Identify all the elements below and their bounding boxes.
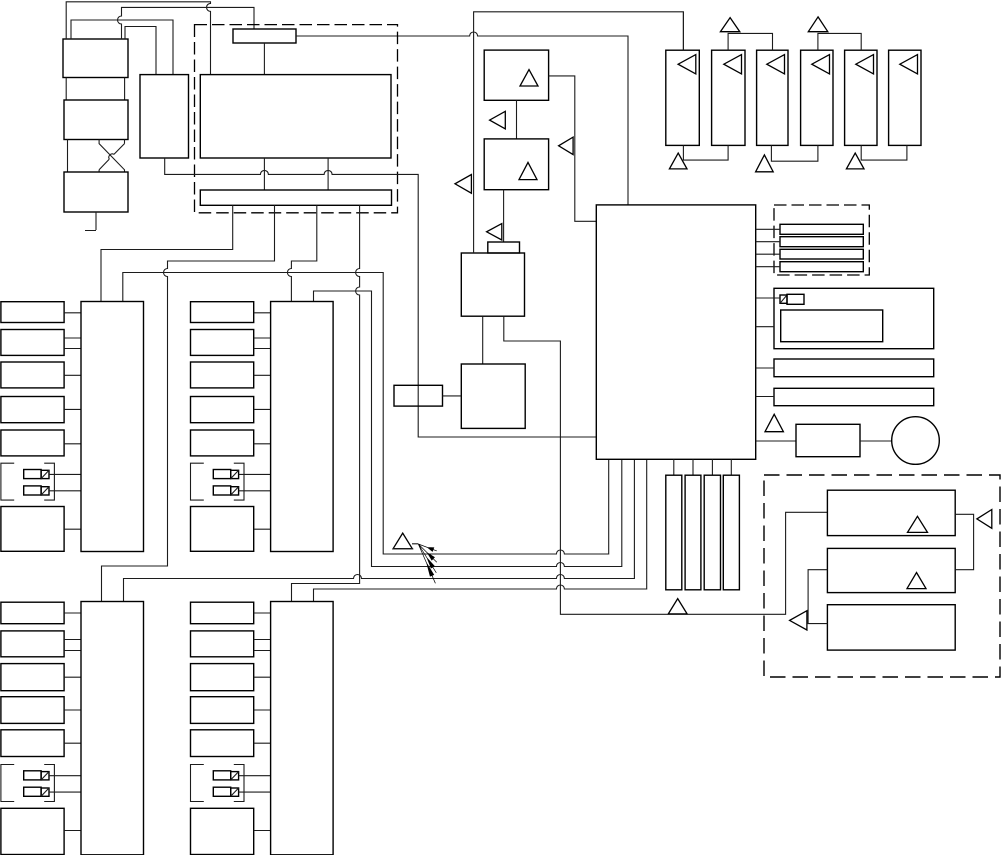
wire battery4-battery5 top link [818, 33, 861, 50]
wire lower-T2 to main unit stub4 [314, 459, 647, 601]
stub below box3 [85, 212, 96, 231]
wire relay box to controller top [296, 32, 628, 205]
wire net-B (box1 to small relay box) [118, 7, 255, 39]
wire bus to lower T1 column [102, 205, 275, 601]
feeder group upper-right (breaker stack and bus column T2) [191, 302, 254, 323]
wire R1 to R2 (right side) [955, 514, 973, 569]
triangle marker left of box E [490, 111, 506, 129]
triangle above battery4 [808, 17, 828, 32]
junction terminal block [488, 242, 520, 253]
wire main to display [756, 326, 774, 328]
bus bar (thin box) [200, 190, 391, 205]
wire box F to junction block [503, 190, 505, 242]
feeder group lower-right (breaker stack and bus column T4) [191, 602, 254, 624]
remote box R2 [827, 548, 955, 592]
triangle marker near motor line [765, 414, 783, 431]
triangle marker left of feeder [455, 175, 471, 194]
small box next to fuse [787, 294, 804, 304]
wire box E to main unit [549, 76, 597, 221]
wire starter to motor [860, 440, 892, 442]
triangle in R2 [907, 573, 926, 589]
wire battery1-battery2 bottom link [683, 145, 728, 160]
wide bar output 1 [774, 359, 934, 377]
main control unit [596, 205, 755, 459]
wire main to bar1 [756, 367, 774, 369]
triangle right of R1 [977, 510, 992, 529]
converter box F [484, 139, 548, 190]
triangle above battery2 [720, 18, 739, 32]
dashed enclosure (outputs) [774, 205, 869, 275]
output bar stubs [756, 228, 780, 230]
wire battery3-battery4 bottom link [771, 145, 818, 161]
wire sensor to box H [443, 395, 462, 397]
triangle in R1 [908, 516, 928, 532]
wire battery5-battery6 bottom link [861, 145, 907, 160]
triangle left of R3 [790, 611, 807, 630]
sensor box left of H [394, 385, 443, 406]
indicator panel box [774, 288, 934, 348]
dashed enclosure (remote group) [764, 475, 1000, 677]
remote box R1 [827, 490, 955, 535]
dashed enclosure (top-left) [195, 25, 398, 213]
triangle below battery5 [846, 153, 864, 169]
link wires between box1 and box2 [66, 78, 124, 101]
feeder group upper-left (breaker stack and bus column T1) [1, 302, 64, 323]
triangle below battery1 [669, 153, 687, 169]
wire big box to bus bar 1 [263, 158, 265, 190]
converter box E [484, 50, 548, 100]
triangle marker right of box F [559, 137, 574, 155]
wire main to bar2 [756, 396, 774, 398]
triangle on remote feed line [668, 599, 687, 614]
triangle marker on box F drop [487, 224, 502, 240]
block stack box 1 (top-left) [63, 39, 128, 78]
wire main to starter box [756, 440, 796, 442]
wire bus to T1 column [101, 205, 233, 301]
wire relay box to big box [263, 43, 265, 75]
remote box R3 [827, 605, 955, 650]
output bars group [780, 224, 863, 234]
wire net-D (box1 to module box) [125, 27, 156, 75]
wire battery1 top to feeder [682, 12, 684, 50]
distribution box H [461, 364, 525, 428]
strike arrows symbol [418, 544, 437, 583]
wire box G to box H [482, 316, 484, 364]
triangle below battery3 [756, 155, 774, 172]
triangle marker at strike point [393, 533, 412, 549]
wire box G to remote group (long) [504, 316, 828, 614]
small relay box [233, 29, 296, 43]
wire module to controller (long run) [165, 158, 597, 437]
wire big box to bus bar 2 [327, 158, 329, 190]
wire T1 to main unit stub1 [123, 273, 609, 555]
wire bus to lower T2 column [292, 205, 360, 601]
tiny fuse square with slash [780, 295, 787, 303]
wire T2 to main unit stub2 [314, 291, 622, 567]
wire R2 to R3 (left side) [808, 570, 827, 624]
wire net-A top (box1 to big box) [66, 2, 210, 75]
battery bank boxes with triangles [666, 50, 700, 145]
wire bus to T2 column [287, 205, 316, 301]
inner display box [781, 310, 883, 342]
triangle marker in box E [520, 70, 538, 86]
triangle marker in box F [519, 162, 537, 179]
wire box2 to box3 left [67, 140, 69, 173]
motor circle [892, 417, 940, 465]
feeder group lower-left (breaker stack and bus column T3) [1, 602, 64, 624]
block stack box 3 [64, 172, 128, 212]
wire main to fuse [756, 297, 780, 299]
distribution box G [461, 253, 524, 316]
wire box E to box F [516, 100, 518, 139]
module box (left of big box) [140, 75, 189, 158]
wire lower-T1 to main unit stub3 [124, 459, 635, 601]
wide bar output 2 [774, 388, 934, 405]
wire top feeder (battery1 to gen box) [474, 12, 684, 253]
starter box [796, 424, 860, 456]
wire battery2-battery3 top link [728, 33, 772, 50]
big processor box (top-left) [200, 75, 391, 158]
crossover (bowtie) link between box2 and box3 [99, 140, 124, 173]
fuse slats group with feed wires [673, 459, 675, 475]
block stack box 2 [64, 100, 128, 140]
wire net-C (box1 to module box) [71, 20, 173, 75]
